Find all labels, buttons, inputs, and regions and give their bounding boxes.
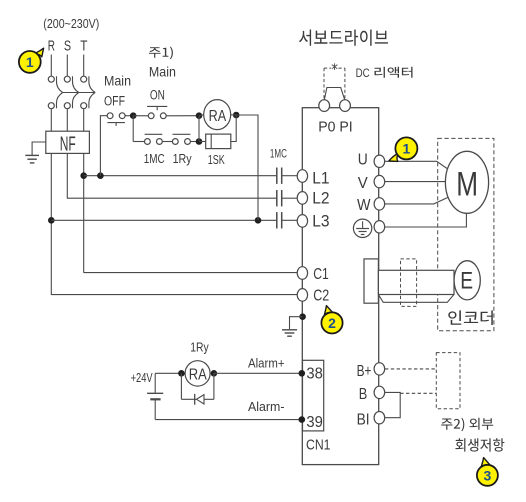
wire node to Main ON — [133, 115, 148, 117]
label 1Ry (alarm relay) — [190, 340, 209, 354]
motor M — [445, 151, 488, 213]
node junction RA right — [233, 112, 240, 119]
svg-text:1: 1 — [403, 141, 411, 157]
wire L1 feed — [84, 175, 298, 177]
pushbutton Main ON — [147, 106, 167, 118]
svg-text:E: E — [460, 267, 473, 294]
wire Alarm+ — [214, 372, 302, 374]
terminal L2 — [297, 192, 307, 205]
label L2 — [312, 190, 329, 208]
svg-text:1: 1 — [26, 54, 34, 70]
disconnect switch pole T — [81, 76, 95, 109]
wire C2 feed — [51, 294, 297, 296]
svg-text:1MC: 1MC — [144, 152, 165, 166]
label BI — [357, 412, 370, 429]
external regen resistor dashed box — [436, 353, 460, 409]
label B+ — [357, 363, 372, 380]
svg-text:Alarm+: Alarm+ — [248, 356, 285, 371]
terminal W — [374, 198, 385, 210]
contact 1MC main (L2 line) — [277, 190, 282, 206]
label pin 39 — [306, 414, 323, 431]
wire R phase down (NF to L3/C2 column) — [50, 153, 52, 295]
label +24V — [131, 370, 153, 385]
svg-text:CN1: CN1 — [306, 437, 331, 454]
contact 1Ry — [172, 134, 190, 144]
svg-text:1MC: 1MC — [270, 146, 287, 160]
contact 1MC aux — [145, 134, 163, 144]
relay coil RA (top) — [204, 100, 231, 130]
label Main (OFF) — [104, 74, 131, 89]
label U — [358, 152, 368, 169]
terminal B+ — [374, 363, 385, 375]
label V — [358, 175, 368, 192]
label ON — [150, 88, 165, 103]
svg-text:3: 3 — [484, 467, 492, 483]
label B — [359, 386, 368, 403]
wire node to 1SK — [199, 141, 206, 143]
motor dashed outline — [438, 138, 494, 330]
disconnect switch pole R — [48, 76, 62, 109]
node junction pin39 — [299, 416, 306, 423]
callout bubble 3 (regen resistor) — [477, 458, 498, 486]
terminal C2 — [297, 289, 307, 302]
svg-text:1SK: 1SK — [208, 153, 225, 167]
callout bubble 1 (motor output) — [389, 137, 418, 161]
terminal BI — [374, 412, 385, 424]
svg-text:(200~230V): (200~230V) — [43, 17, 99, 31]
ground (NF) — [25, 155, 39, 163]
wire PE to motor — [385, 213, 467, 227]
DC reactor dashed outline — [324, 68, 345, 100]
svg-text:U: U — [358, 152, 368, 169]
svg-text:L2: L2 — [312, 190, 329, 208]
wire 1MC aux to 1Ry — [162, 141, 172, 143]
svg-text:BI: BI — [357, 412, 370, 429]
label DC 리액터 — [356, 66, 413, 80]
wire NF to ground — [32, 142, 46, 155]
callout bubble 2 (control power) — [321, 306, 342, 334]
terminal PI — [340, 100, 351, 112]
label 회생저항 — [455, 438, 504, 451]
svg-text:B+: B+ — [357, 363, 372, 380]
svg-text:ON: ON — [150, 88, 165, 103]
node junction control tap on L1 — [97, 172, 104, 179]
wire ON to RA node — [166, 115, 199, 117]
wire B+ to resistor (dashed) — [385, 368, 436, 370]
node R label — [48, 39, 55, 55]
svg-text:M: M — [456, 166, 478, 204]
wire R input stub — [50, 55, 52, 76]
wire B to resistor (dashed) — [400, 392, 436, 394]
wire battery + to RA — [155, 372, 185, 374]
node junction R/L3 — [48, 217, 55, 224]
svg-text:L3: L3 — [312, 213, 329, 231]
svg-text:S: S — [64, 39, 71, 55]
label 주1) — [149, 47, 173, 60]
wire to signal ground — [290, 317, 303, 330]
label 1SK — [208, 153, 225, 167]
pushbutton Main OFF — [107, 113, 125, 126]
svg-text:1Ry: 1Ry — [173, 152, 193, 166]
svg-text:C2: C2 — [313, 288, 329, 305]
encoder E — [454, 261, 480, 300]
svg-text:L1: L1 — [312, 169, 329, 187]
label 주2) 외부 — [441, 418, 493, 431]
svg-text:RA: RA — [209, 108, 227, 125]
disconnect switch linkage bar — [63, 92, 96, 94]
terminal L3 — [297, 215, 307, 228]
wire B to BI link — [385, 392, 400, 417]
disconnect switch pole S — [64, 76, 78, 109]
node junction RA/diode right — [211, 370, 218, 377]
thermal relay 1SK — [206, 134, 231, 149]
diode (flyback) — [181, 373, 214, 404]
svg-text:38: 38 — [306, 366, 323, 383]
wire C1 feed — [84, 272, 298, 274]
jumper bar P0-PI — [324, 88, 345, 101]
wire W to motor — [385, 198, 448, 204]
breaker NF — [46, 131, 90, 155]
terminal C1 — [297, 267, 307, 280]
svg-text:1Ry: 1Ry — [190, 340, 209, 354]
wire OFF to node — [125, 115, 133, 117]
battery +24V — [147, 373, 163, 419]
svg-text:C1: C1 — [313, 266, 329, 283]
node junction RA/diode left — [178, 370, 185, 377]
svg-text:39: 39 — [306, 414, 323, 431]
label Alarm+ — [248, 356, 285, 371]
svg-text:NF: NF — [60, 134, 76, 156]
label (200~230V) — [43, 17, 99, 31]
label L3 — [312, 213, 329, 231]
wire to relay coil RA — [199, 114, 204, 117]
wire T phase down (NF to L1/C1 column) — [83, 153, 85, 272]
node junction control return on L3 — [255, 217, 262, 224]
node T label — [80, 39, 87, 55]
wire control return — [236, 115, 258, 220]
wire S phase down (NF to L2) — [67, 153, 297, 198]
svg-text:B: B — [359, 386, 368, 403]
label 인코더 (encoder) — [448, 310, 493, 325]
svg-text:W: W — [357, 197, 371, 214]
node junction signal ground — [299, 313, 306, 320]
encoder cable connector (dashed) — [401, 259, 417, 307]
wire T input stub — [83, 55, 85, 76]
wire R to NF — [50, 109, 52, 132]
label 1MC (main contacts) — [270, 146, 287, 160]
svg-text:V: V — [358, 175, 368, 192]
relay coil RA (alarm) — [185, 361, 210, 386]
terminal PE — [374, 221, 385, 233]
wire U to motor — [385, 161, 447, 168]
svg-text:2: 2 — [328, 315, 336, 331]
contact 1MC main (L1 line) — [277, 168, 282, 184]
label OFF — [104, 94, 125, 109]
wire branch down left of contacts — [133, 116, 144, 142]
ground symbol PE terminal — [353, 219, 371, 237]
svg-text:OFF: OFF — [104, 94, 125, 109]
svg-text:DC: DC — [356, 66, 370, 80]
terminal L1 — [297, 170, 307, 183]
node junction 1SK left — [196, 138, 203, 145]
svg-text:R: R — [48, 39, 55, 55]
wire Alarm- return — [155, 419, 302, 421]
label pin 38 — [306, 366, 323, 383]
label W — [357, 197, 371, 214]
terminal B — [374, 386, 385, 398]
label C1 — [313, 266, 329, 283]
servo drive enclosure — [302, 108, 378, 465]
terminal V — [374, 175, 385, 187]
wire V to motor — [385, 181, 446, 183]
wire 1SK right up to RA right — [231, 115, 236, 142]
callout bubble 1 (input power) — [19, 48, 44, 73]
wire RA-1SK left parallel — [198, 116, 200, 142]
label Alarm- — [248, 399, 285, 414]
svg-text:+24V: +24V — [131, 370, 153, 385]
terminal P0 — [319, 100, 330, 112]
node junction OFF/ON branch — [130, 112, 137, 119]
wire S input stub — [66, 55, 68, 76]
svg-text:Main: Main — [149, 65, 176, 80]
wire control tap up from L1 — [100, 116, 107, 176]
label 1Ry — [173, 152, 193, 166]
encoder cable body — [378, 270, 454, 302]
wire T to NF — [83, 109, 85, 132]
node S label — [64, 39, 71, 55]
wire RA right — [231, 114, 237, 116]
node junction RA left — [196, 112, 203, 119]
ground (drive) — [282, 330, 297, 336]
wire L3 feed — [51, 219, 297, 221]
terminal U — [374, 155, 385, 167]
node junction pin38 — [299, 370, 306, 377]
svg-text:T: T — [80, 39, 87, 55]
node junction T/L1 — [80, 172, 87, 179]
label L1 — [312, 169, 329, 187]
label Main (ON) — [149, 65, 176, 80]
contact 1MC main (L3 line) — [277, 212, 282, 228]
connector CN1 — [303, 360, 324, 431]
svg-text:Main: Main — [104, 74, 131, 89]
wire S to NF — [66, 109, 68, 132]
label CN1 — [306, 437, 331, 454]
label 1MC — [144, 152, 165, 166]
label C2 — [313, 288, 329, 305]
svg-text:P0 PI: P0 PI — [318, 119, 353, 136]
label 서보드라이브 (servo drive) — [299, 30, 388, 46]
DC reactor break symbol — [332, 63, 338, 70]
svg-text:Alarm-: Alarm- — [248, 399, 285, 414]
label P0 PI — [318, 119, 353, 136]
encoder connector (drive side) — [364, 259, 378, 303]
svg-text:RA: RA — [189, 366, 208, 383]
wire 1Ry to node — [190, 141, 199, 143]
